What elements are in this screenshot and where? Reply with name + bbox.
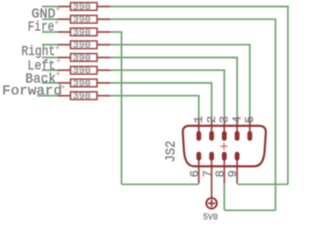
- svg-text:5V0: 5V0: [203, 211, 218, 222]
- svg-text:JS2: JS2: [164, 141, 180, 163]
- svg-text:390: 390: [73, 3, 91, 13]
- svg-text:390: 390: [73, 41, 91, 51]
- svg-text:390: 390: [73, 66, 91, 76]
- svg-text:Forward: Forward: [2, 83, 62, 99]
- svg-text:390: 390: [73, 28, 91, 38]
- svg-text:390: 390: [73, 54, 91, 64]
- svg-text:390: 390: [73, 79, 91, 89]
- svg-text:9: 9: [226, 170, 240, 177]
- svg-text:5: 5: [243, 116, 257, 123]
- svg-text:Fire: Fire: [28, 19, 55, 35]
- svg-text:390: 390: [73, 15, 91, 25]
- svg-text:390: 390: [73, 92, 91, 102]
